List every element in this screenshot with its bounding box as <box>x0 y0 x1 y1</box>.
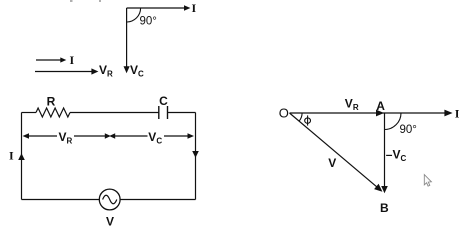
measurement arrow V_C (right tip) <box>164 133 194 139</box>
svg-text:C: C <box>159 94 168 108</box>
mouse cursor <box>424 175 431 187</box>
phasor: vertical line A to B <box>381 113 388 193</box>
90 degree arc (upper-left sketch) <box>127 8 141 22</box>
stray mark top edge 1 <box>70 0 73 2</box>
AC source V <box>99 189 120 210</box>
wire: vertical V_C arrow (upper-left sketch) <box>124 8 130 73</box>
resistor R <box>36 108 70 117</box>
current arrow on right wire <box>192 151 199 158</box>
wire: circuit right side <box>195 113 197 200</box>
svg-text:I: I <box>455 107 460 121</box>
svg-text:I: I <box>70 53 75 67</box>
measurement arrow V_R (left tip) <box>23 133 58 139</box>
svg-text:R: R <box>47 95 56 109</box>
current arrow on left wire <box>18 153 25 160</box>
wire: V_R arrow (upper-left sketch) <box>35 68 98 74</box>
svg-text:A: A <box>376 99 385 113</box>
svg-text:V: V <box>328 156 336 170</box>
phi arc at O <box>299 113 302 121</box>
wire: horizontal I arrow from corner (upper-left sketch) <box>127 5 191 11</box>
svg-text:90°: 90° <box>400 124 417 136</box>
wire: circuit top-right segment <box>168 112 196 114</box>
stray mark top edge 2 <box>99 0 101 2</box>
90 degree arc at A <box>385 113 402 130</box>
svg-text:I: I <box>192 1 197 15</box>
svg-text:O: O <box>279 105 289 120</box>
phasor: horizontal axis O to I <box>290 110 453 117</box>
svg-text:I: I <box>9 149 14 163</box>
wire: circuit bottom-right segment <box>120 199 195 201</box>
wire: circuit top middle segment <box>70 112 159 114</box>
bowtie arrowheads (middle) <box>105 133 115 139</box>
label phi <box>305 115 311 125</box>
measurement line to bowtie <box>74 135 106 137</box>
wire: circuit left side <box>21 113 23 200</box>
measurement line from bowtie <box>114 135 147 137</box>
svg-text:B: B <box>380 201 389 215</box>
wire: circuit top-left segment <box>22 112 37 114</box>
phasor: V_R arrowhead at A <box>376 110 384 117</box>
svg-text:V: V <box>106 215 114 227</box>
phasor: diagonal V from O to B <box>290 113 383 192</box>
svg-text:90°: 90° <box>140 16 157 28</box>
wire: small I arrow (upper-left sketch) <box>36 57 66 62</box>
capacitor C <box>159 106 168 119</box>
wire: circuit bottom-left segment <box>22 199 100 201</box>
